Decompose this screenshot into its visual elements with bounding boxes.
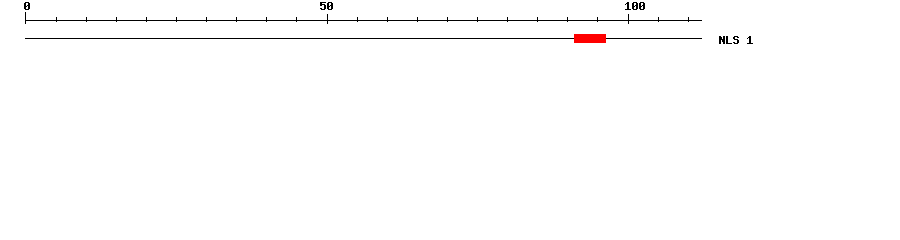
ruler scale label 0 bbox=[24, 2, 30, 10]
ruler minor tick 30 bbox=[206, 17, 207, 22]
ruler minor tick 20 bbox=[146, 17, 147, 22]
ruler minor tick 110 bbox=[688, 17, 689, 22]
ruler minor tick 90 bbox=[567, 17, 568, 22]
ruler major tick 100 bbox=[628, 14, 629, 24]
ruler major tick 0 bbox=[25, 12, 26, 24]
ruler major tick 50 bbox=[327, 14, 328, 24]
ruler minor tick 35 bbox=[236, 17, 237, 22]
feature label NLS 1 bbox=[719, 36, 753, 44]
ruler minor tick 5 bbox=[56, 17, 57, 22]
ruler scale label 100 bbox=[625, 2, 645, 10]
sequence line bbox=[25, 38, 702, 39]
ruler minor tick 45 bbox=[296, 17, 297, 22]
ruler scale label 50 bbox=[320, 2, 333, 10]
ruler minor tick 10 bbox=[86, 17, 87, 22]
ruler minor tick 65 bbox=[417, 17, 418, 22]
ruler minor tick 15 bbox=[116, 17, 117, 22]
ruler axis line bbox=[25, 20, 702, 21]
ruler minor tick 80 bbox=[507, 17, 508, 22]
ruler minor tick 60 bbox=[387, 17, 388, 22]
ruler minor tick 55 bbox=[357, 17, 358, 22]
ruler minor tick 25 bbox=[176, 17, 177, 22]
ruler minor tick 95 bbox=[597, 17, 598, 22]
ruler minor tick 105 bbox=[658, 17, 659, 22]
domain box NLS 1 (red) bbox=[574, 34, 606, 43]
background bbox=[0, 0, 900, 58]
ruler minor tick 75 bbox=[477, 17, 478, 22]
ruler minor tick 40 bbox=[266, 17, 267, 22]
ruler minor tick 70 bbox=[447, 17, 448, 22]
ruler minor tick 85 bbox=[537, 17, 538, 22]
